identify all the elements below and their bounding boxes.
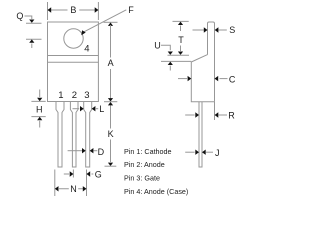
svg-text:H: H (36, 105, 43, 115)
svg-text:F: F (128, 5, 134, 15)
svg-text:U: U (154, 41, 161, 51)
svg-text:Pin 1: Cathode: Pin 1: Cathode (124, 147, 172, 156)
svg-text:T: T (178, 35, 184, 45)
svg-text:S: S (229, 25, 235, 35)
svg-text:C: C (229, 75, 236, 85)
svg-text:A: A (108, 58, 114, 68)
svg-text:2: 2 (72, 90, 77, 101)
svg-text:L: L (99, 104, 104, 114)
svg-text:J: J (215, 148, 220, 158)
svg-text:4: 4 (84, 43, 89, 54)
svg-text:Pin 2: Anode: Pin 2: Anode (124, 160, 165, 169)
svg-text:N: N (70, 184, 77, 194)
svg-text:Pin 3: Gate: Pin 3: Gate (124, 174, 160, 183)
svg-text:G: G (95, 169, 102, 179)
svg-text:Pin 4: Anode (Case): Pin 4: Anode (Case) (124, 187, 188, 196)
svg-text:K: K (108, 129, 114, 139)
svg-text:R: R (228, 110, 235, 120)
svg-text:3: 3 (84, 90, 89, 101)
svg-text:Q: Q (16, 11, 23, 21)
svg-text:D: D (98, 147, 105, 157)
svg-text:B: B (70, 5, 76, 15)
svg-text:1: 1 (58, 90, 63, 101)
